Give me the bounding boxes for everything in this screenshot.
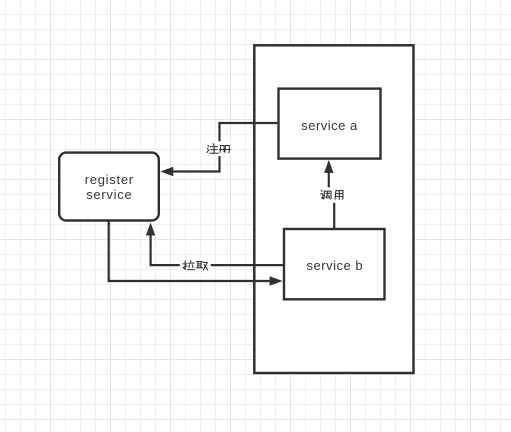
service a box <box>279 89 381 159</box>
label background 拉取 <box>180 258 211 273</box>
wire: service b to service a upper segment (调用 edge) <box>328 172 330 191</box>
label background 调用 <box>318 187 348 203</box>
service b box <box>284 229 385 299</box>
svg-text:service b: service b <box>307 258 364 273</box>
svg-text:service: service <box>86 187 132 202</box>
label glyph 拉 <box>183 260 195 269</box>
arrowhead into register service bottom edge <box>146 223 155 236</box>
container box (outer system boundary) <box>254 45 413 373</box>
label glyph 取 <box>196 262 208 271</box>
arrowhead into service b left edge <box>270 276 283 285</box>
label background 注册 <box>203 141 235 156</box>
register service box <box>59 153 159 221</box>
wire: service b to service a lower segment (调用 edge) <box>333 200 335 230</box>
label glyph 调 <box>321 190 332 199</box>
arrowhead into register service right edge <box>160 167 173 176</box>
svg-text:service a: service a <box>301 118 358 133</box>
label glyph 注 <box>207 144 218 154</box>
wire: service b to register service (拉取 reply edge) <box>151 235 283 265</box>
svg-text:register: register <box>85 172 134 187</box>
arrowhead into service a bottom edge <box>324 160 333 173</box>
label glyph 册 <box>219 145 230 152</box>
label glyph 用 <box>335 191 343 200</box>
wire: register service to service b (拉取 request edge) <box>109 221 271 282</box>
wire: service a to register service (注册 edge) <box>173 123 277 172</box>
